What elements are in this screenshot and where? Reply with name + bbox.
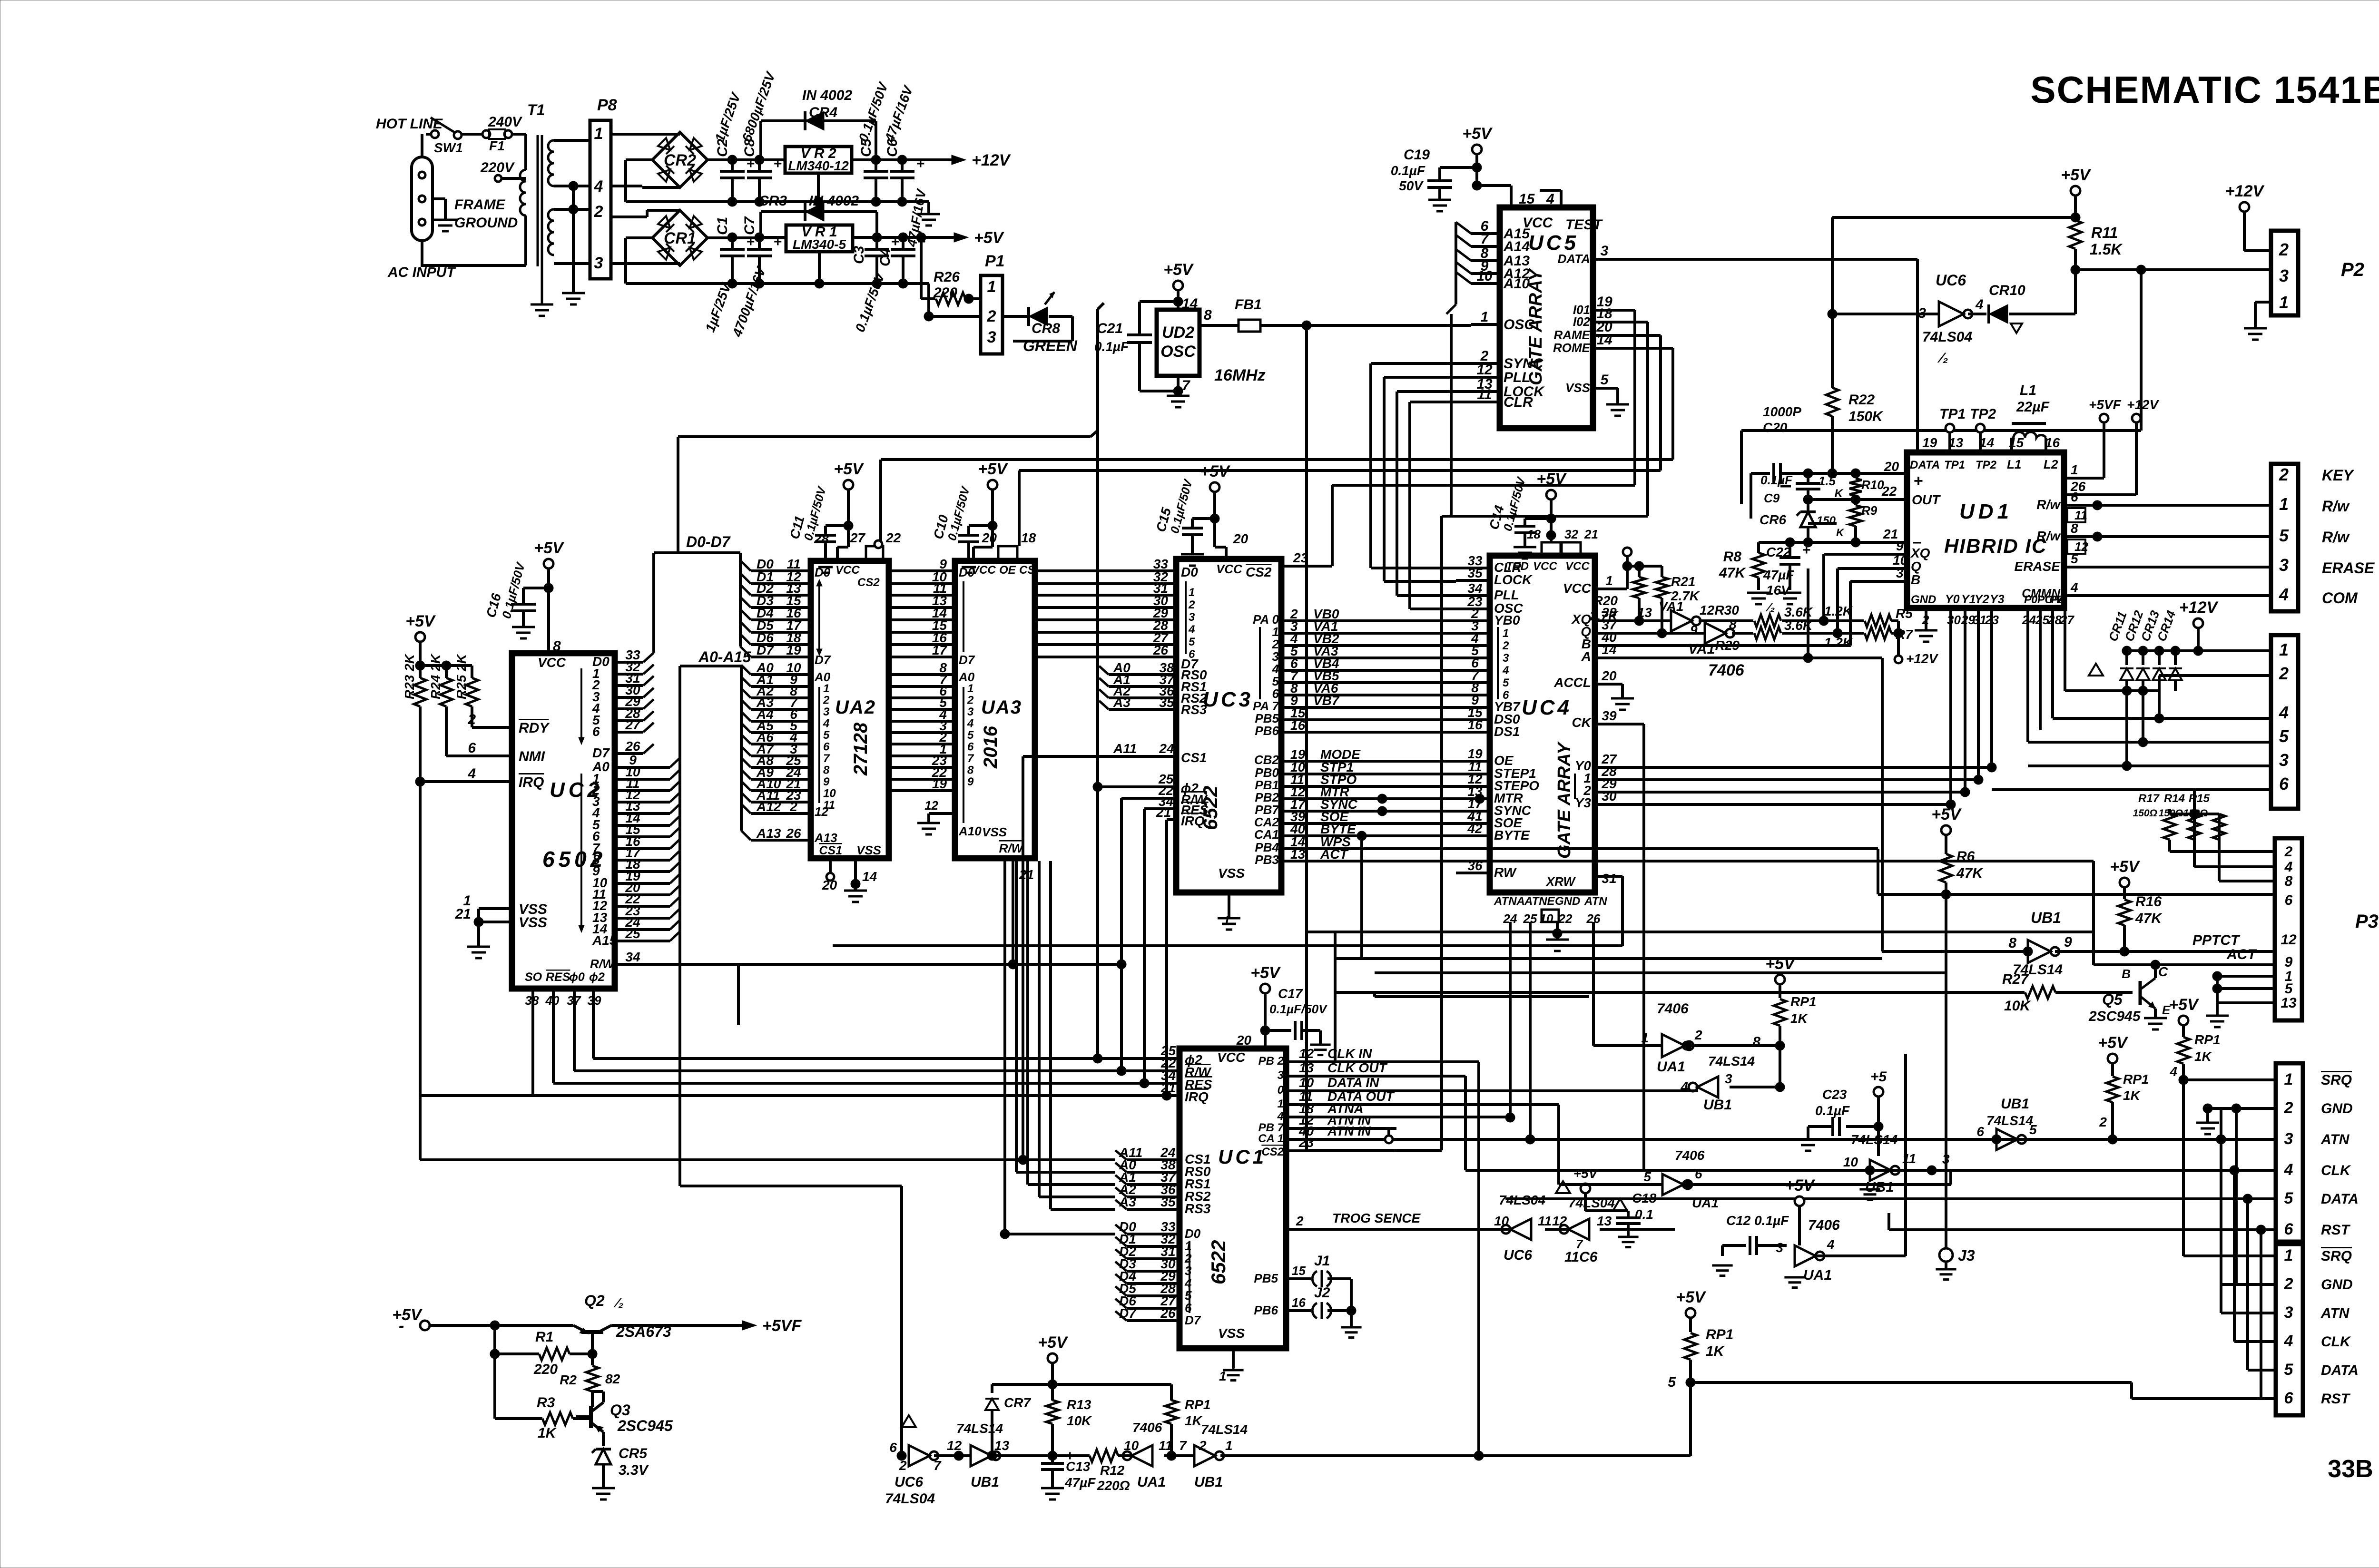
svg-text:+5: +5 xyxy=(1870,1069,1887,1085)
svg-text:GND: GND xyxy=(1911,593,1936,606)
UC2 pin 15 A6 xyxy=(592,822,680,843)
svg-text:0.1µF: 0.1µF xyxy=(1815,1103,1850,1118)
UC1 pin 22 R/W xyxy=(1121,1056,1212,1079)
svg-text:1: 1 xyxy=(2284,1070,2293,1088)
svg-text:R22: R22 xyxy=(1848,392,1875,408)
wire A8 UA2-UA3 xyxy=(889,753,955,768)
wire DATA OUT route xyxy=(1396,1105,1559,1185)
wire VA6 UC3-UC4 xyxy=(1272,681,1456,701)
wire A3 down xyxy=(1051,861,1115,1209)
wire SRQ down xyxy=(2183,1080,2276,1256)
svg-text:RW: RW xyxy=(1494,865,1517,880)
svg-text:+5V: +5V xyxy=(1676,1288,1707,1306)
svg-text:8: 8 xyxy=(1729,617,1737,632)
svg-text:PLL: PLL xyxy=(1494,588,1519,602)
svg-text:C12 0.1µF: C12 0.1µF xyxy=(1726,1213,1789,1228)
capacitor C3 xyxy=(851,234,900,334)
wire Y1 link xyxy=(1622,775,1983,784)
svg-text:R24 2K: R24 2K xyxy=(428,653,443,699)
svg-text:2: 2 xyxy=(2279,664,2289,683)
wire DATA junction down xyxy=(1741,270,2141,431)
wire ATN long xyxy=(1294,1135,2276,1144)
UC3 pin 13 ACT xyxy=(1255,847,2094,867)
svg-text:12: 12 xyxy=(1476,362,1493,378)
svg-text:RP1: RP1 xyxy=(1185,1397,1210,1412)
svg-text:5: 5 xyxy=(2285,981,2293,997)
svg-text:30: 30 xyxy=(1947,613,1961,627)
UA2 D0 D7 inner labels xyxy=(815,565,831,667)
svg-text:XRW: XRW xyxy=(1545,874,1576,889)
capacitor C7 xyxy=(729,216,782,339)
wire band line 4 xyxy=(1375,971,1946,974)
UC3 pin 37 RS1 xyxy=(1099,672,1207,694)
svg-text:74LS04: 74LS04 xyxy=(885,1491,935,1507)
zener CR5 3.3V xyxy=(592,1446,649,1488)
svg-text:Y3: Y3 xyxy=(1575,795,1592,810)
wire R17 bus up xyxy=(2190,790,2199,819)
svg-text:14: 14 xyxy=(1596,332,1612,348)
capacitor C6 xyxy=(882,83,924,206)
svg-text:UC6: UC6 xyxy=(1936,272,1966,289)
LED CR8 xyxy=(1003,292,1072,341)
resistor R13 10K xyxy=(1046,1384,1092,1460)
svg-text:GATE ARRAY: GATE ARRAY xyxy=(1554,741,1574,859)
svg-text:38: 38 xyxy=(525,993,539,1008)
UC3 pin 24 CS1 xyxy=(1023,741,1207,765)
resistor RP1 5 xyxy=(1668,1318,1733,1390)
svg-text:+: + xyxy=(747,156,755,172)
svg-text:R/w: R/w xyxy=(2322,498,2350,515)
svg-text:16: 16 xyxy=(1290,718,1306,733)
UC4 pin 23 OSC xyxy=(1456,594,1523,616)
wire OUT pin 22 xyxy=(1803,484,1907,504)
wire R/W down xyxy=(1117,798,1126,1076)
wire P8-4 to CR2 bottom xyxy=(611,186,680,187)
svg-text:+5V: +5V xyxy=(1250,964,1281,982)
svg-text:C4: C4 xyxy=(877,248,893,266)
UC3 pin 34 RES xyxy=(1144,794,1209,817)
svg-text:23: 23 xyxy=(1298,1135,1314,1150)
UD1 pin 26 +12V xyxy=(2064,397,2159,495)
svg-text:32: 32 xyxy=(1564,527,1578,541)
svg-text:5: 5 xyxy=(2284,1361,2294,1379)
svg-text:2: 2 xyxy=(1296,1214,1304,1228)
svg-text:4: 4 xyxy=(1546,191,1554,207)
svg-text:A14: A14 xyxy=(1503,239,1530,255)
UC1 PA0 pin 2 xyxy=(1286,1228,1294,1231)
connector P6 xyxy=(2276,1063,2379,1242)
svg-text:12: 12 xyxy=(947,1438,962,1453)
svg-text:CR10: CR10 xyxy=(1989,283,2025,298)
svg-text:17: 17 xyxy=(932,643,948,657)
svg-text:R30: R30 xyxy=(1715,603,1740,617)
svg-text:GND: GND xyxy=(2321,1277,2353,1293)
UC4 XRW pin 31 xyxy=(1545,871,1622,889)
svg-text:21: 21 xyxy=(455,906,471,922)
wire TROO out xyxy=(1600,1228,1675,1231)
svg-text:C3: C3 xyxy=(851,245,867,264)
UC1 pin 29 D4 xyxy=(1115,1269,1192,1290)
wire mid vertical 2 xyxy=(1360,836,1363,959)
svg-text:+5V: +5V xyxy=(1931,805,1962,823)
svg-text:7: 7 xyxy=(934,1458,942,1473)
svg-text:B: B xyxy=(1911,572,1920,587)
svg-text:6: 6 xyxy=(1503,689,1509,702)
UC3 VSS pin 1 xyxy=(1218,866,1245,930)
UA2 pin 15 D3 xyxy=(740,593,811,608)
wire D bus down xyxy=(1000,861,1115,1239)
wire Y2 link xyxy=(1622,787,1970,797)
+5V terminal UC5 xyxy=(1462,125,1493,154)
svg-text:26: 26 xyxy=(2070,479,2086,494)
svg-text:CR5: CR5 xyxy=(619,1446,648,1461)
UC1 pin 12 CLK IN xyxy=(1258,1046,1396,1068)
wire plug-left xyxy=(422,241,526,265)
svg-text:2: 2 xyxy=(2284,1275,2293,1293)
UC1 pin 34 RES xyxy=(1144,1068,1212,1092)
svg-text:4: 4 xyxy=(467,766,476,782)
inverter UA1 5 6 xyxy=(1643,1148,1719,1210)
svg-text:CA 1: CA 1 xyxy=(1258,1132,1284,1145)
wire Q3 emitter xyxy=(602,1432,605,1446)
svg-text:R/W: R/W xyxy=(590,957,615,971)
UC4 pin 39 CK xyxy=(1572,708,1622,730)
svg-text:GND: GND xyxy=(1555,895,1580,908)
capacitor C4 xyxy=(877,187,929,288)
svg-text:IN 4002: IN 4002 xyxy=(802,88,852,103)
svg-text:4: 4 xyxy=(1827,1237,1835,1252)
wire A2 UA2-UA3 xyxy=(889,684,955,698)
svg-text:10: 10 xyxy=(1843,1155,1858,1169)
UC2 pin 11 A2 xyxy=(592,776,680,797)
svg-text:C19: C19 xyxy=(1404,147,1430,163)
svg-text:3: 3 xyxy=(2284,1130,2293,1148)
wire SRQ P6 xyxy=(2183,1078,2276,1081)
svg-text:5: 5 xyxy=(2284,1189,2294,1207)
svg-text:1: 1 xyxy=(987,278,996,296)
resistor R25 xyxy=(446,653,478,727)
svg-text:35: 35 xyxy=(1159,695,1174,710)
label 7406 mid xyxy=(1708,661,1745,679)
wire A10 UA2-UA3 xyxy=(889,776,955,791)
inverter UB1 PPTCT xyxy=(2008,909,2072,978)
wire VB2 UC3-UC4 xyxy=(1272,631,1456,651)
svg-text:22µF: 22µF xyxy=(2016,399,2050,415)
UC2 pin 26 D7 xyxy=(592,739,654,760)
wire CR2 left to rail xyxy=(626,160,732,202)
UC2 pin 1 VSS xyxy=(463,893,547,917)
svg-text:36: 36 xyxy=(1467,858,1483,873)
capacitor C9 xyxy=(1760,473,1820,505)
UC4 pin 12 STEPO xyxy=(1456,772,1539,793)
inverter UA1 3 4 xyxy=(1776,1206,1840,1288)
svg-text:ATN IN: ATN IN xyxy=(1327,1124,1371,1138)
UC5 VCC pin 15 xyxy=(1511,186,1554,207)
transformer T1 secondary bottom xyxy=(548,209,590,264)
UA2 pin 23 A11 xyxy=(741,788,811,803)
svg-text:1: 1 xyxy=(2279,640,2289,659)
UC4 pin 15 DS0 xyxy=(1456,705,1520,726)
UC1 pin 30 D3 xyxy=(1115,1256,1192,1278)
svg-text:UC5: UC5 xyxy=(1528,231,1579,255)
wire mid vertical 3 xyxy=(1373,992,1376,997)
svg-text:7406: 7406 xyxy=(1675,1148,1705,1163)
svg-text:27: 27 xyxy=(625,717,641,732)
svg-text:14: 14 xyxy=(862,869,877,884)
svg-text:Q5: Q5 xyxy=(2102,991,2123,1008)
wire A4 UA2-UA3 xyxy=(889,707,955,722)
svg-text:6: 6 xyxy=(1189,648,1195,661)
wire ATNA down xyxy=(1505,922,1515,1122)
wire rail +5 raw xyxy=(759,236,954,239)
UC2 pin 24 A14 xyxy=(592,915,680,936)
wire ACT xyxy=(2094,861,2275,965)
svg-text:L2: L2 xyxy=(2044,457,2058,471)
svg-text:1: 1 xyxy=(2284,1246,2293,1264)
svg-text:UD2: UD2 xyxy=(1162,323,1194,342)
svg-text:VSS: VSS xyxy=(856,843,882,857)
resistor R6 47K xyxy=(1940,835,1984,899)
UD1 pin 3 B xyxy=(1850,566,1920,587)
svg-text:IRQ: IRQ xyxy=(1181,813,1205,828)
svg-text:16: 16 xyxy=(1467,717,1483,732)
UA2 A0 inner labels xyxy=(814,670,831,819)
svg-text:Y3: Y3 xyxy=(1990,593,2005,606)
wire A0 down xyxy=(1016,861,1115,1172)
svg-text:ACCL: ACCL xyxy=(1553,675,1591,690)
svg-text:74LS04: 74LS04 xyxy=(1922,329,1972,345)
svg-text:150Ω: 150Ω xyxy=(2133,808,2157,819)
wire D3 UA2-UA3 xyxy=(889,593,955,608)
svg-text:6: 6 xyxy=(2284,1389,2294,1407)
wire P6-P7 link 4 xyxy=(2256,1225,2276,1399)
UA2 pin 10 A0 xyxy=(741,660,811,675)
UA3 top pin stubs xyxy=(973,530,1036,561)
svg-text:220V: 220V xyxy=(480,160,515,176)
svg-text:SW1: SW1 xyxy=(434,140,463,155)
wire STP1 UC3-UC4 xyxy=(1255,760,1456,780)
wire VB0 UC3-UC4 xyxy=(1253,607,1456,627)
svg-text:11C6: 11C6 xyxy=(1564,1249,1598,1265)
svg-text:D0-D7: D0-D7 xyxy=(686,533,731,550)
wire 5 junction xyxy=(1686,1378,1695,1456)
svg-text:VCC: VCC xyxy=(1565,560,1590,573)
UC4 pin 27 Y0 xyxy=(1575,752,1622,773)
IC UC3 6522 xyxy=(1176,559,1281,892)
svg-text:12: 12 xyxy=(1299,1046,1314,1061)
svg-text:4: 4 xyxy=(2279,585,2289,604)
svg-text:UB1: UB1 xyxy=(2031,909,2061,926)
svg-text:CR3: CR3 xyxy=(758,193,787,209)
wire Q5 emitter gnd xyxy=(2144,1009,2167,1029)
wire D0 UA2-UA3 xyxy=(889,557,955,571)
svg-text:B: B xyxy=(2122,967,2131,981)
UC2 pin 30 D3 xyxy=(592,683,654,704)
svg-text:P2: P2 xyxy=(2341,259,2364,280)
transistor Q2 2SA673 xyxy=(573,1292,671,1340)
wire UC5 DATA to UD1 xyxy=(1618,259,1917,451)
wire RST long xyxy=(1889,1213,2276,1235)
svg-text:ATN: ATN xyxy=(2320,1132,2350,1147)
UC4 pin 17 SYNC xyxy=(1456,796,1532,818)
svg-text:21: 21 xyxy=(1156,805,1171,820)
wire SYNC junction xyxy=(1377,806,1387,816)
wire chain 1 xyxy=(934,1438,971,1460)
UC2 pin 16 A7 xyxy=(592,834,680,855)
svg-text:GROUND: GROUND xyxy=(454,215,518,231)
wire Q line xyxy=(1622,632,1705,635)
wire P5 pin1 xyxy=(2193,628,2271,656)
UA2 pin 21 A10 xyxy=(741,776,811,791)
svg-text:+5V: +5V xyxy=(405,612,436,630)
svg-text:4: 4 xyxy=(2284,1161,2293,1179)
wire ROME route xyxy=(881,348,1673,546)
svg-text:10: 10 xyxy=(1494,1214,1509,1228)
+5V terminal R11 xyxy=(2061,166,2092,196)
svg-text:1K: 1K xyxy=(2194,1049,2212,1064)
label A0-A15 xyxy=(698,648,751,666)
svg-text:+5VF: +5VF xyxy=(2089,397,2122,412)
svg-text:CLR: CLR xyxy=(1504,394,1533,410)
svg-text:+5V: +5V xyxy=(974,229,1005,247)
wire phi2 trunk xyxy=(1098,303,1104,1058)
svg-text:L1: L1 xyxy=(2020,382,2036,398)
svg-text:A11: A11 xyxy=(1113,741,1137,756)
wire FB1 to UC5 OSC xyxy=(1260,321,1471,330)
wire neutral xyxy=(421,134,423,265)
svg-text:31: 31 xyxy=(1602,871,1616,886)
wire CR13 down xyxy=(2158,691,2161,718)
svg-text:A3: A3 xyxy=(1119,1195,1136,1209)
UA2 pin 8 A2 xyxy=(741,684,811,698)
wire RES to UC1 xyxy=(1144,1082,1180,1085)
wire CR1 left xyxy=(626,238,652,284)
bridge rectifier CR2 xyxy=(652,132,708,187)
UC1 pin 28 D5 xyxy=(1115,1281,1192,1303)
UC4 pin 1 VCC xyxy=(1563,573,1622,596)
resistor R10 1.5K xyxy=(1819,473,1884,504)
resistor R3 1K xyxy=(490,1349,591,1441)
svg-text:8: 8 xyxy=(1204,307,1212,323)
svg-text:35: 35 xyxy=(1467,566,1483,580)
svg-text:K: K xyxy=(1835,487,1844,500)
wire SYNC UC3-UC4 xyxy=(1255,797,1456,817)
svg-text:47µF: 47µF xyxy=(1763,568,1794,582)
svg-text:A12: A12 xyxy=(756,799,781,814)
svg-text:P3: P3 xyxy=(2355,911,2379,932)
wire phi2 to UC1 xyxy=(1099,1057,1180,1060)
UC3 pin 25 phi2 xyxy=(1098,772,1199,795)
IC UD1 hybrid xyxy=(1907,452,2064,608)
wire A3 UA2-UA3 xyxy=(889,695,955,710)
wire P3 grounded pins xyxy=(2206,971,2275,1027)
svg-text:5: 5 xyxy=(1643,1169,1651,1184)
svg-text:6: 6 xyxy=(1695,1166,1702,1181)
inverter UA1 bottom xyxy=(1123,1420,1172,1490)
wire P5 pin5 xyxy=(2040,737,2271,747)
svg-text:1000P: 1000P xyxy=(1763,404,1801,419)
UA2 pin 24 A9 xyxy=(741,765,811,780)
svg-text:C21: C21 xyxy=(1097,321,1123,336)
svg-text:D7: D7 xyxy=(959,653,975,667)
wire chain 4 xyxy=(1164,1454,1194,1457)
svg-text:47K: 47K xyxy=(1956,865,1984,881)
svg-text:CLK: CLK xyxy=(2321,1334,2351,1350)
wire R25 to RDY xyxy=(472,726,483,729)
wire A0 UA2-UA3 xyxy=(889,660,955,675)
svg-text:RST: RST xyxy=(2321,1391,2351,1407)
wire Y3 link xyxy=(1622,800,1956,809)
svg-text:A15: A15 xyxy=(592,933,617,948)
svg-text:1: 1 xyxy=(2279,494,2289,514)
svg-text:RAME: RAME xyxy=(1553,328,1590,342)
svg-text:11: 11 xyxy=(2074,508,2087,522)
svg-text:COM: COM xyxy=(2322,589,2358,607)
connector J2 xyxy=(1312,1285,1351,1319)
label AC INPUT xyxy=(387,265,456,280)
svg-text:6: 6 xyxy=(2279,774,2289,794)
svg-text:34: 34 xyxy=(1467,581,1483,596)
wire +5V to Q2 xyxy=(430,1321,573,1330)
svg-text:5: 5 xyxy=(1503,676,1509,689)
UA2 pin 4 A6 xyxy=(741,730,811,745)
+12V terminal P5 xyxy=(2179,598,2219,628)
svg-text:Y2: Y2 xyxy=(1975,593,1989,606)
svg-text:26: 26 xyxy=(625,739,640,754)
svg-text:VA1: VA1 xyxy=(1659,599,1683,614)
wire chain top rail xyxy=(992,1363,1171,1389)
svg-text:ROME: ROME xyxy=(1553,341,1591,355)
wire UC6 pair link xyxy=(1545,1228,1568,1231)
connector J3 xyxy=(1936,894,1975,1280)
wire D0 vertical xyxy=(680,931,902,1456)
svg-text:5: 5 xyxy=(2279,526,2289,545)
svg-text:8: 8 xyxy=(2008,935,2016,951)
capacitor C14 xyxy=(1486,470,1567,559)
svg-text:1: 1 xyxy=(1189,586,1195,599)
label GREEN xyxy=(1023,337,1078,354)
svg-text:ϕ2: ϕ2 xyxy=(589,970,605,984)
wire band RW xyxy=(833,944,1622,947)
wire IRQ down xyxy=(1162,820,1171,1100)
wire CR6 extend xyxy=(1807,568,1809,658)
UA2 pin 9 A1 xyxy=(741,672,811,687)
svg-text:C23: C23 xyxy=(1822,1087,1847,1102)
svg-text:RP1: RP1 xyxy=(1706,1327,1733,1343)
capacitor C22 xyxy=(1763,542,1811,598)
svg-text:20: 20 xyxy=(1884,459,1899,474)
UC1 pin 11 DATA OUT xyxy=(1278,1089,1396,1110)
svg-text:13: 13 xyxy=(1290,847,1306,862)
wire C21 bottom xyxy=(1140,343,1183,396)
connector P2 xyxy=(2271,231,2364,315)
capacitor C17 xyxy=(1236,964,1331,1055)
svg-text:P8: P8 xyxy=(597,96,617,114)
svg-text:3: 3 xyxy=(1776,1240,1783,1255)
svg-text:9: 9 xyxy=(1690,623,1698,637)
svg-text:2: 2 xyxy=(823,694,830,707)
svg-text:SCHEMATIC 1541B: SCHEMATIC 1541B xyxy=(2030,69,2379,111)
svg-text:C9: C9 xyxy=(1764,491,1780,505)
svg-text:C17: C17 xyxy=(1278,986,1303,1001)
svg-text:19: 19 xyxy=(786,643,801,657)
svg-text:26: 26 xyxy=(786,826,801,841)
wire D5 UA2-UA3 xyxy=(889,618,955,633)
svg-text:74LS04: 74LS04 xyxy=(1499,1193,1545,1207)
svg-text:5: 5 xyxy=(1601,372,1609,388)
wire SOE UC3-UC4 xyxy=(1254,809,1456,829)
svg-text:DATA: DATA xyxy=(1910,459,1940,471)
